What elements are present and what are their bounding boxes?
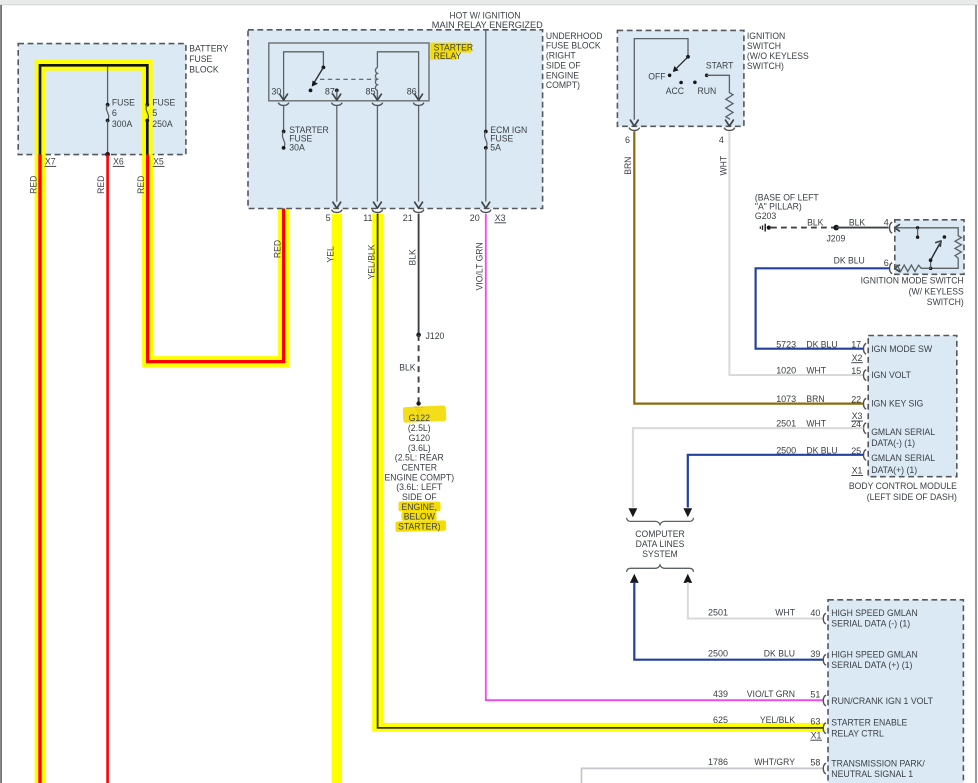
svg-text:WHT: WHT bbox=[775, 607, 795, 617]
svg-text:1786: 1786 bbox=[708, 757, 728, 767]
svg-text:IGNITION MODE SWITCH: IGNITION MODE SWITCH bbox=[861, 276, 964, 286]
svg-text:SERIAL DATA (-) (1): SERIAL DATA (-) (1) bbox=[831, 619, 910, 629]
svg-text:4: 4 bbox=[719, 135, 724, 145]
svg-text:1073: 1073 bbox=[776, 394, 796, 404]
ignition switch label bbox=[747, 31, 809, 71]
svg-text:WHT: WHT bbox=[718, 155, 728, 175]
svg-text:UNDERHOOD: UNDERHOOD bbox=[546, 31, 603, 41]
svg-text:YEL/BLK: YEL/BLK bbox=[760, 715, 795, 725]
ground G203 bbox=[760, 224, 771, 232]
svg-text:J120: J120 bbox=[426, 331, 445, 341]
wire WHT data lines to pin 40 bbox=[683, 574, 823, 619]
svg-text:11: 11 bbox=[363, 213, 372, 223]
BCM pin 22 row bbox=[776, 394, 923, 409]
svg-text:51: 51 bbox=[810, 690, 820, 700]
svg-text:X1: X1 bbox=[811, 730, 822, 740]
svg-text:DATA(-) (1): DATA(-) (1) bbox=[871, 438, 915, 448]
svg-text:X6: X6 bbox=[113, 156, 124, 166]
svg-text:40: 40 bbox=[810, 608, 820, 618]
svg-text:1020: 1020 bbox=[776, 366, 796, 376]
svg-text:FUSE: FUSE bbox=[152, 98, 175, 108]
computer data lines label bbox=[635, 529, 685, 559]
svg-text:5A: 5A bbox=[490, 143, 501, 153]
svg-text:OFF: OFF bbox=[648, 72, 666, 82]
ignition switch box bbox=[617, 30, 744, 126]
svg-text:2500: 2500 bbox=[708, 649, 728, 659]
svg-text:VIO/LT GRN: VIO/LT GRN bbox=[475, 242, 485, 290]
svg-text:BELOW: BELOW bbox=[404, 512, 436, 522]
svg-text:2501: 2501 bbox=[708, 607, 728, 617]
svg-text:RED: RED bbox=[272, 239, 282, 258]
right page border bbox=[975, 5, 976, 783]
wire BLK dashed to ground G122 bbox=[399, 335, 418, 402]
svg-text:(3.6L): (3.6L) bbox=[408, 443, 431, 453]
left page border bbox=[0, 5, 2, 783]
svg-text:X1: X1 bbox=[852, 466, 863, 476]
svg-text:(RIGHT: (RIGHT bbox=[546, 51, 576, 61]
BCM pin 24 row bbox=[776, 419, 935, 449]
relay U1 box bbox=[269, 43, 429, 101]
battery fuse block label bbox=[189, 44, 228, 75]
wire DK BLU data lines to pin 39 bbox=[630, 574, 823, 660]
svg-text:22: 22 bbox=[851, 395, 861, 405]
fuse ECM IGN 5A bbox=[482, 30, 527, 208]
svg-text:5: 5 bbox=[152, 108, 157, 118]
svg-text:63: 63 bbox=[810, 717, 820, 727]
ignition switch start resistor bbox=[707, 75, 734, 126]
BCM pin 25 row bbox=[776, 445, 935, 475]
svg-text:30A: 30A bbox=[289, 143, 305, 153]
svg-text:ENGINE COMPT): ENGINE COMPT) bbox=[385, 472, 455, 482]
node X1 (BCM) bbox=[851, 466, 863, 476]
svg-text:RUN: RUN bbox=[698, 86, 717, 96]
battery fuse block box bbox=[18, 44, 186, 155]
pin 6 ignition mode switch bbox=[884, 258, 931, 274]
svg-text:21: 21 bbox=[403, 213, 413, 223]
svg-text:20: 20 bbox=[470, 213, 480, 223]
svg-text:ENGINE: ENGINE bbox=[546, 70, 579, 80]
svg-text:BLK: BLK bbox=[399, 363, 415, 373]
node X2 bbox=[851, 353, 863, 363]
starter relay label highlight bbox=[430, 43, 471, 53]
bottom module pin 51 row bbox=[713, 689, 933, 706]
pin 4 ignition switch bbox=[719, 128, 735, 146]
wire black core below starter fuse bbox=[282, 151, 285, 209]
wire relay 85 to pin 11 bbox=[374, 105, 382, 208]
wire relay 30 to starter fuse bbox=[283, 105, 285, 131]
svg-text:4: 4 bbox=[884, 217, 889, 227]
pin 6 ignition switch bbox=[625, 128, 640, 146]
wire BLK pin21 down bbox=[408, 214, 419, 335]
svg-text:5: 5 bbox=[326, 213, 331, 223]
svg-text:RED: RED bbox=[136, 175, 146, 194]
wire RED X7 yellow highlight bbox=[35, 155, 46, 783]
G122 caption bbox=[385, 413, 455, 531]
svg-text:RELAY CTRL: RELAY CTRL bbox=[831, 728, 884, 738]
bottom module pin 63 row bbox=[713, 715, 907, 738]
svg-text:X2: X2 bbox=[852, 353, 863, 363]
fuse F5 250A bbox=[145, 98, 175, 129]
svg-text:SWITCH: SWITCH bbox=[747, 41, 781, 51]
svg-text:(W/ KEYLESS: (W/ KEYLESS bbox=[909, 287, 964, 297]
wire BLK J209 to ignition mode switch pin4 bbox=[836, 218, 888, 228]
svg-text:(LEFT SIDE OF DASH): (LEFT SIDE OF DASH) bbox=[867, 492, 957, 502]
svg-text:625: 625 bbox=[713, 715, 728, 725]
svg-text:YEL/BLK: YEL/BLK bbox=[367, 244, 377, 279]
svg-text:SYSTEM: SYSTEM bbox=[642, 549, 678, 559]
svg-text:BATTERY: BATTERY bbox=[189, 44, 228, 54]
underhood fuse block box bbox=[248, 30, 543, 209]
junction dot X6 bbox=[105, 152, 110, 157]
wire RED X5 loop bbox=[136, 155, 284, 362]
svg-text:SWITCH): SWITCH) bbox=[927, 297, 964, 307]
svg-text:BRN: BRN bbox=[623, 157, 633, 175]
wire YEL/BLK pin11 to pin63 yellow band bbox=[372, 214, 383, 732]
svg-text:SWITCH): SWITCH) bbox=[747, 61, 784, 71]
svg-text:HOT W/ IGNITION: HOT W/ IGNITION bbox=[450, 10, 521, 20]
svg-text:58: 58 bbox=[810, 758, 820, 768]
svg-text:MAIN RELAY ENERGIZED: MAIN RELAY ENERGIZED bbox=[432, 20, 543, 30]
relay switch 30/87 bbox=[271, 52, 338, 100]
BCM pin 15 row bbox=[776, 366, 911, 381]
node X7 bbox=[45, 156, 57, 166]
top toolbar strip bbox=[0, 0, 978, 5]
node X1 (bottom module) bbox=[810, 730, 822, 740]
wire relay 86 to pin 21 bbox=[415, 105, 423, 208]
svg-text:RUN/CRANK IGN 1 VOLT: RUN/CRANK IGN 1 VOLT bbox=[831, 696, 933, 706]
svg-text:BLK: BLK bbox=[849, 218, 865, 228]
svg-text:COMPT): COMPT) bbox=[546, 80, 580, 90]
svg-text:BRN: BRN bbox=[806, 394, 824, 404]
junction J209 bbox=[826, 225, 845, 244]
svg-text:GMLAN SERIAL: GMLAN SERIAL bbox=[871, 453, 935, 463]
relay coil 85/86 bbox=[366, 52, 419, 100]
svg-text:IGN KEY SIG: IGN KEY SIG bbox=[871, 399, 923, 409]
svg-text:6: 6 bbox=[625, 135, 630, 145]
svg-text:STARTER ENABLE: STARTER ENABLE bbox=[831, 718, 907, 728]
svg-text:VIO/LT GRN: VIO/LT GRN bbox=[747, 689, 795, 699]
svg-text:SIDE OF: SIDE OF bbox=[546, 60, 581, 70]
svg-text:RED: RED bbox=[96, 175, 106, 194]
relay pin arrows at box bottom bbox=[280, 94, 423, 100]
computer data lines brace bottom bbox=[627, 565, 694, 572]
ignition switch contacts OFF/ACC/RUN/START bbox=[648, 61, 734, 96]
svg-text:STARTER): STARTER) bbox=[398, 522, 440, 532]
svg-text:ENGINE,: ENGINE, bbox=[402, 502, 438, 512]
svg-text:(W/O KEYLESS: (W/O KEYLESS bbox=[747, 51, 809, 61]
svg-text:BLOCK: BLOCK bbox=[189, 64, 218, 74]
svg-text:IGN VOLT: IGN VOLT bbox=[871, 370, 911, 380]
svg-text:FUSE BLOCK: FUSE BLOCK bbox=[546, 41, 601, 51]
wire BLK dashed G203 to J209 bbox=[771, 218, 834, 228]
wire YEL/BLK black core bbox=[367, 214, 824, 728]
svg-text:WHT: WHT bbox=[806, 366, 826, 376]
hot w/ ignition label bbox=[432, 10, 543, 30]
svg-text:17: 17 bbox=[851, 340, 861, 350]
svg-text:NEUTRAL SIGNAL 1: NEUTRAL SIGNAL 1 bbox=[831, 769, 913, 779]
wire WHT ign sw pin4 to BCM pin15 bbox=[718, 131, 863, 375]
svg-text:SERIAL DATA (+) (1): SERIAL DATA (+) (1) bbox=[831, 660, 912, 670]
svg-text:DK BLU: DK BLU bbox=[834, 256, 865, 266]
svg-text:CENTER: CENTER bbox=[402, 462, 438, 472]
wire YEL pin5 down bbox=[326, 214, 342, 783]
computer data lines brace top bbox=[627, 518, 694, 525]
ignition mode switch label bbox=[861, 276, 964, 307]
svg-text:(2.5L): (2.5L) bbox=[408, 423, 431, 433]
svg-text:COMPUTER: COMPUTER bbox=[635, 529, 685, 539]
relay pin connector arcs below box bbox=[278, 103, 424, 106]
ignition switch internals bbox=[630, 39, 689, 127]
wire DK BLU BCM pin25 to data lines bbox=[683, 455, 863, 518]
svg-text:X5: X5 bbox=[153, 156, 164, 166]
wire RED X5 loop yellow highlight bbox=[148, 150, 284, 361]
underhood fuse block label bbox=[546, 31, 603, 90]
ignition mode switch box bbox=[895, 220, 964, 274]
body control module box bbox=[868, 336, 957, 477]
ground G122 bbox=[414, 401, 423, 412]
G203 caption bbox=[755, 192, 819, 221]
svg-text:439: 439 bbox=[713, 689, 728, 699]
pin 4 ignition mode switch bbox=[884, 217, 900, 233]
pin 11 bbox=[363, 210, 383, 223]
svg-text:(2.5L: REAR: (2.5L: REAR bbox=[395, 453, 444, 463]
wire battery fuse5 lower black bbox=[146, 121, 149, 155]
wire RED X7 bbox=[28, 155, 40, 783]
node X5 bbox=[153, 156, 165, 166]
BCM pin 17 row bbox=[776, 339, 932, 354]
wire battery loop yellow highlight bbox=[40, 65, 147, 154]
svg-text:J209: J209 bbox=[826, 234, 845, 244]
svg-text:BLK: BLK bbox=[807, 218, 823, 228]
svg-text:HIGH SPEED GMLAN: HIGH SPEED GMLAN bbox=[831, 608, 917, 618]
node X3 bbox=[494, 213, 506, 223]
svg-text:6: 6 bbox=[112, 108, 117, 118]
svg-text:YEL: YEL bbox=[326, 246, 336, 262]
fuse starter 30A bbox=[282, 125, 330, 153]
wire WHT/GRY to pin 58 bbox=[582, 768, 824, 783]
svg-text:G120: G120 bbox=[409, 433, 430, 443]
svg-text:ACC: ACC bbox=[666, 86, 685, 96]
svg-text:START: START bbox=[706, 61, 734, 71]
bottom module box bbox=[828, 600, 963, 783]
node X6 bbox=[113, 156, 125, 166]
svg-text:G203: G203 bbox=[755, 211, 776, 221]
starter relay label bbox=[434, 43, 474, 61]
svg-text:DK BLU: DK BLU bbox=[764, 649, 795, 659]
bottom module pin 40 row bbox=[708, 607, 918, 628]
svg-text:HIGH SPEED GMLAN: HIGH SPEED GMLAN bbox=[831, 649, 917, 659]
junction J120 bbox=[416, 331, 444, 341]
svg-text:FUSE: FUSE bbox=[112, 98, 135, 108]
relay dashed actuation line bbox=[320, 78, 376, 80]
svg-text:39: 39 bbox=[810, 649, 820, 659]
ignition mode switch internals bbox=[895, 226, 962, 270]
pin 20 bbox=[470, 210, 491, 223]
svg-text:DATA(+) (1): DATA(+) (1) bbox=[871, 465, 917, 475]
pin 21 bbox=[403, 210, 424, 223]
pin 5 bbox=[326, 210, 343, 223]
wire BRN ign sw pin6 to BCM pin22 bbox=[623, 131, 863, 403]
wire RED X6 bbox=[96, 155, 107, 783]
svg-text:250A: 250A bbox=[152, 119, 172, 129]
wire WHT BCM pin24 to data lines bbox=[629, 428, 864, 517]
svg-text:5723: 5723 bbox=[776, 339, 796, 349]
node X3 (BCM) bbox=[851, 411, 863, 421]
svg-text:SIDE OF: SIDE OF bbox=[402, 492, 437, 502]
svg-text:X7: X7 bbox=[45, 156, 56, 166]
svg-text:IGNITION: IGNITION bbox=[747, 31, 785, 41]
svg-text:BODY CONTROL MODULE: BODY CONTROL MODULE bbox=[849, 481, 957, 491]
svg-text:X3: X3 bbox=[495, 213, 506, 223]
svg-text:RED: RED bbox=[28, 175, 38, 194]
svg-text:RELAY: RELAY bbox=[434, 51, 462, 61]
G122 caption highlights bbox=[399, 502, 441, 512]
svg-text:15: 15 bbox=[851, 366, 861, 376]
bottom module pin 58 row bbox=[708, 757, 925, 779]
wire DK BLU mode sw pin6 to BCM pin17 bbox=[756, 256, 890, 349]
svg-text:FUSE: FUSE bbox=[189, 54, 212, 64]
svg-text:300A: 300A bbox=[112, 119, 132, 129]
svg-text:G122: G122 bbox=[409, 413, 430, 423]
svg-text:WHT/GRY: WHT/GRY bbox=[754, 757, 795, 767]
svg-text:DATA LINES: DATA LINES bbox=[636, 539, 685, 549]
body control module label bbox=[849, 481, 957, 502]
svg-text:(3.6L: LEFT: (3.6L: LEFT bbox=[396, 482, 443, 492]
svg-text:BLK: BLK bbox=[408, 249, 418, 265]
wire relay 87 to pin 5 bbox=[333, 105, 341, 208]
svg-text:IGN MODE SW: IGN MODE SW bbox=[871, 344, 932, 354]
svg-text:GMLAN SERIAL: GMLAN SERIAL bbox=[871, 427, 935, 437]
wire VIO/LT GRN pin20 to pin51 bbox=[475, 214, 824, 701]
svg-text:TRANSMISSION PARK/: TRANSMISSION PARK/ bbox=[831, 758, 925, 768]
ground G122 highlight swash bbox=[403, 405, 447, 422]
fuse F6 300A bbox=[106, 67, 135, 155]
svg-text:6: 6 bbox=[884, 258, 889, 268]
bottom module pin 39 row bbox=[708, 649, 918, 670]
wire battery loop black bbox=[40, 65, 147, 155]
svg-text:DK BLU: DK BLU bbox=[806, 339, 837, 349]
